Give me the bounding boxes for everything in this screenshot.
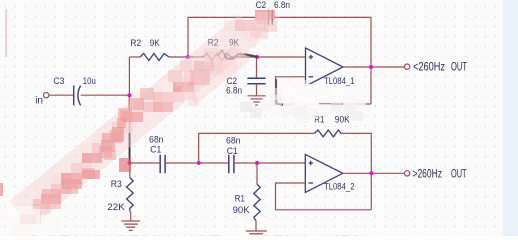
input terminal "in" (44, 93, 49, 98)
wire R3 to ground (130, 212, 132, 221)
op-amp U2 TL084_2 (305, 154, 343, 192)
wire top run to R2a (129, 56, 140, 58)
svg-text:R1: R1 (235, 194, 245, 205)
wire op1 minus input (276, 77, 372, 104)
svg-text:6.8n: 6.8n (226, 86, 242, 97)
wire C1b to op2 plus (234, 162, 305, 164)
svg-text:90K: 90K (335, 115, 351, 126)
resistor R2b (203, 54, 240, 61)
wire C1a to node F (165, 162, 229, 164)
resistor R2a (140, 54, 169, 61)
op-amp U1 TL084_1 (306, 48, 344, 86)
svg-text:in: in (35, 96, 43, 107)
watermark dark vertical over left bus (129, 118, 131, 164)
bottom cut-off text row (14, 232, 494, 237)
svg-text:9K: 9K (150, 38, 161, 49)
wire C2 to output corner (274, 17, 371, 104)
svg-text:<260Hz: <260Hz (413, 62, 445, 74)
capacitor C2 (shunt) (247, 78, 265, 83)
capacitor C2 (feedback) (268, 10, 272, 25)
resistor R1 (feedback) (314, 130, 341, 137)
node E junction (bottom left) (127, 161, 131, 165)
right blue strip (503, 0, 518, 236)
wire left vertical bus (128, 57, 130, 163)
node A junction (127, 93, 131, 97)
wire R1 shunt to ground (255, 221, 257, 231)
svg-text:>260Hz: >260Hz (413, 168, 443, 180)
wire node B up to top feedback (188, 17, 267, 57)
wire input to C3 (49, 94, 73, 96)
wire C3 to node A (81, 94, 130, 96)
wire node F up to feedback 2 (199, 133, 315, 163)
wire R1 feedback to op2 output corner (341, 133, 371, 209)
wire C2 shunt stem (256, 57, 258, 78)
wire R2b to node C (240, 56, 306, 58)
ground (R1 shunt) (246, 231, 267, 234)
watermark dark corner near op1 feedback (276, 79, 294, 105)
wire C2 shunt to ground (256, 84, 258, 96)
svg-text:22K: 22K (107, 202, 125, 213)
svg-text:R2: R2 (130, 38, 141, 49)
wire op2 minus input (276, 183, 372, 210)
svg-text:OUT: OUT (451, 168, 467, 180)
node D junction (op1 out) (369, 65, 373, 69)
watermark dark scribble over R2b (217, 51, 257, 59)
svg-text:90K: 90K (233, 205, 251, 216)
node B junction (186, 55, 190, 59)
svg-text:10u: 10u (83, 76, 96, 87)
svg-text:OUT: OUT (451, 62, 467, 74)
ground (R3) (121, 221, 140, 230)
capacitor C3 (74, 86, 81, 106)
svg-text:R3: R3 (111, 179, 122, 190)
node H junction (op2 out) (369, 171, 373, 175)
svg-text:TL084_2: TL084_2 (324, 182, 355, 192)
svg-text:6.8n: 6.8n (274, 0, 290, 11)
capacitor C1b (229, 155, 234, 173)
output terminal 1 (404, 64, 409, 69)
wire op2 output (343, 172, 405, 174)
wire bottom run from node A bus (129, 162, 160, 164)
ground (C2 shunt) (248, 96, 266, 105)
resistor R3 (127, 178, 134, 212)
wire R1 shunt stem (256, 163, 258, 184)
svg-text:C1: C1 (150, 145, 161, 156)
svg-text:C1: C1 (227, 146, 238, 157)
output terminal 2 (404, 171, 409, 176)
node F junction (197, 161, 201, 165)
node C junction (255, 55, 259, 59)
wire R2a to node B (169, 56, 203, 58)
capacitor C1a (160, 155, 165, 173)
svg-text:C3: C3 (53, 76, 64, 87)
wire op1 output (343, 66, 404, 68)
svg-text:TL084_1: TL084_1 (324, 76, 355, 86)
watermark mosaic (0, 0, 518, 1)
resistor R1 (shunt) (254, 184, 260, 221)
wire R3 stem (129, 163, 131, 178)
node G junction (R1 shunt tap) (255, 161, 259, 165)
